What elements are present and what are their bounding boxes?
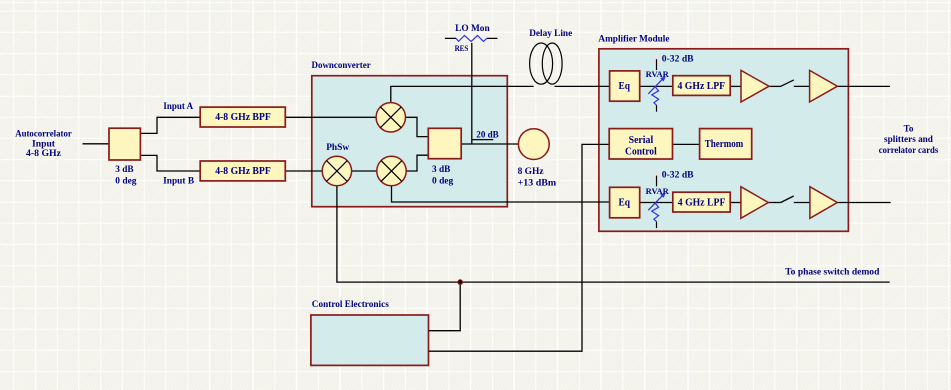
label 8 GHz +13 dBm [518,167,557,189]
switch blade bottom [781,196,794,203]
splitter 3dB 0deg input [109,128,140,160]
svg-text:Input A: Input A [163,101,193,111]
svg-text:splitters and: splitters and [884,135,934,145]
svg-text:0 deg: 0 deg [432,176,454,186]
svg-text:4 GHz LPF: 4 GHz LPF [678,196,726,208]
wire switch to amp A2 [794,85,810,87]
BPF filter A 4-8 GHz [200,107,285,127]
LO oscillator 8 GHz [518,129,549,160]
svg-text:Control: Control [625,145,657,157]
wire LPF bottom to amp A3 [730,202,741,204]
svg-text:Amplifier Module: Amplifier Module [598,35,669,45]
svg-text:To: To [904,124,914,134]
label 3dB 0deg downconverter [432,164,454,186]
wire 3dB splitter to LO source [461,143,518,145]
serial control box [609,129,672,159]
resistor R1 LO Mon zigzag [456,36,487,42]
label To splitters and correlator cards [879,124,939,156]
svg-text:4-8 GHz BPF: 4-8 GHz BPF [215,165,271,177]
control electronics box [311,315,429,365]
wire BPF A to mixer U1 [285,116,376,118]
wire amp A4 output [837,202,890,204]
svg-text:3 dB: 3 dB [432,164,450,174]
svg-text:20 dB: 20 dB [476,130,499,140]
svg-text:Eq: Eq [618,197,630,209]
wire Eq top to LPF top [640,85,673,87]
wire LPF top to amp A1 [730,85,741,87]
resistor R1 LO Mon leads [445,37,498,39]
svg-text:0-32 dB: 0-32 dB [662,171,694,181]
equalizer Eq bottom [610,187,640,218]
thermometer box [700,129,752,160]
svg-text:PhSw: PhSw [326,143,349,153]
label Serial Control [625,134,657,158]
20dB label underline [472,139,494,141]
amplifier A2 [810,70,838,102]
svg-text:RVAR: RVAR [646,187,669,196]
wire BPF B to phase switch mixer [285,170,322,172]
variable attenuator RVAR bottom [648,172,666,229]
svg-text:Autocorrelator: Autocorrelator [15,129,72,139]
wire amp A2 output [837,85,890,87]
svg-text:4-8 GHz: 4-8 GHz [26,148,61,158]
wire splitter to BPF A [140,117,200,133]
wire delay line to Eq top [555,85,610,87]
wire mixer U1 IF out to delay line [391,86,534,102]
mixer U2 [377,156,406,185]
svg-text:Input: Input [32,138,55,148]
wire switch to amp A4 [794,202,810,204]
wire splitter to BPF B [140,155,200,171]
LPF 4 GHz bottom [673,192,730,212]
switch blade top [781,80,794,87]
wire mixer U1 LO port to 3dB splitter [406,117,429,136]
wire PhSw mixer to mixer U2 [352,170,377,172]
junction dot [458,280,463,285]
wire PhSw mixer to phase switch demod line [337,186,890,282]
wire amp A1 out to switch [769,85,781,87]
svg-text:0-32 dB: 0-32 dB [662,54,694,64]
3dB 0deg LO splitter box [428,128,461,158]
amplifier A4 [810,187,837,219]
svg-text:RVAR: RVAR [646,70,669,79]
svg-text:Delay Line: Delay Line [529,29,572,39]
wire mixer U2 IF out to Eq bottom [392,186,610,202]
svg-text:0 deg: 0 deg [115,176,137,186]
downconverter module box [312,76,508,207]
svg-text:Eq: Eq [618,80,630,92]
svg-text:4-8 GHz BPF: 4-8 GHz BPF [215,111,271,123]
svg-text:Input B: Input B [163,175,194,185]
LPF 4 GHz top [673,76,730,96]
svg-text:LO Mon: LO Mon [455,24,490,34]
label Autocorrelator Input 4-8 GHz [15,129,72,158]
svg-text:8 GHz: 8 GHz [518,167,545,177]
wire mixer U2 LO port to 3dB splitter [406,155,428,171]
wire input [83,143,110,145]
amplifier A1 [741,70,769,102]
svg-text:RES: RES [455,44,469,53]
amplifier module box [599,49,849,232]
BPF filter B 4-8 GHz [200,161,285,181]
svg-text:Thermom: Thermom [705,138,744,150]
equalizer Eq top [610,71,640,101]
svg-text:correlator cards: correlator cards [879,146,939,156]
wire control electronics to junction [429,282,461,331]
svg-text:3 dB: 3 dB [115,164,133,174]
svg-text:Control Electronics: Control Electronics [312,300,389,310]
svg-text:+13 dBm: +13 dBm [518,179,557,189]
label 3dB 0deg splitter [115,164,137,186]
delay line coil [530,43,563,84]
variable attenuator RVAR top [648,55,666,111]
svg-text:Downconverter: Downconverter [312,61,372,71]
wire control electronics to serial control [429,144,610,351]
phase switch mixer PhSw [322,156,351,185]
wire Eq bottom to LPF bottom [640,202,673,204]
svg-text:4 GHz LPF: 4 GHz LPF [678,80,726,92]
wire amp A3 out to switch [768,202,780,204]
amplifier A3 [741,187,768,219]
mixer U1 [376,103,405,132]
wire serial control to thermom [673,143,700,145]
svg-text:To phase switch demod: To phase switch demod [785,268,880,278]
wire 20dB coupler tap to LO Mon resistor [471,43,473,144]
svg-text:Serial: Serial [629,134,654,146]
